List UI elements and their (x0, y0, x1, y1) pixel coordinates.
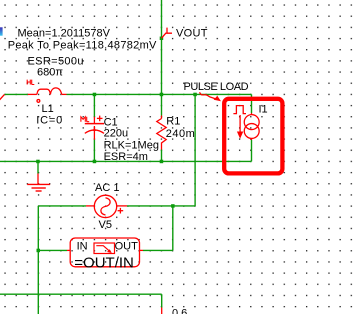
svg-text:OUT: OUT (115, 241, 139, 253)
svg-text:680π: 680π (37, 67, 63, 79)
svg-text:AC 1: AC 1 (95, 182, 119, 194)
svg-text:L1: L1 (42, 103, 54, 115)
svg-text:Mean=1.2011578V: Mean=1.2011578V (18, 28, 111, 40)
svg-text:ESR=4m: ESR=4m (104, 151, 148, 163)
svg-text:I1: I1 (259, 104, 268, 116)
svg-text:C1: C1 (104, 117, 118, 129)
svg-text:=OUT/IN: =OUT/IN (74, 255, 134, 272)
svg-text:220u: 220u (104, 128, 128, 140)
svg-text:Peak To Peak=118.48782mV: Peak To Peak=118.48782mV (8, 39, 157, 51)
svg-text:V5: V5 (99, 219, 112, 231)
svg-text:0.6: 0.6 (172, 307, 187, 314)
svg-text:R1: R1 (166, 116, 180, 128)
svg-text:IN: IN (77, 241, 88, 253)
svg-text:RLK=1Meg: RLK=1Meg (104, 140, 159, 152)
svg-text:240m: 240m (166, 128, 196, 140)
svg-text:IC=0: IC=0 (36, 115, 63, 127)
svg-text:PULSE LOAD: PULSE LOAD (184, 81, 249, 93)
svg-text:VOUT: VOUT (176, 28, 208, 40)
